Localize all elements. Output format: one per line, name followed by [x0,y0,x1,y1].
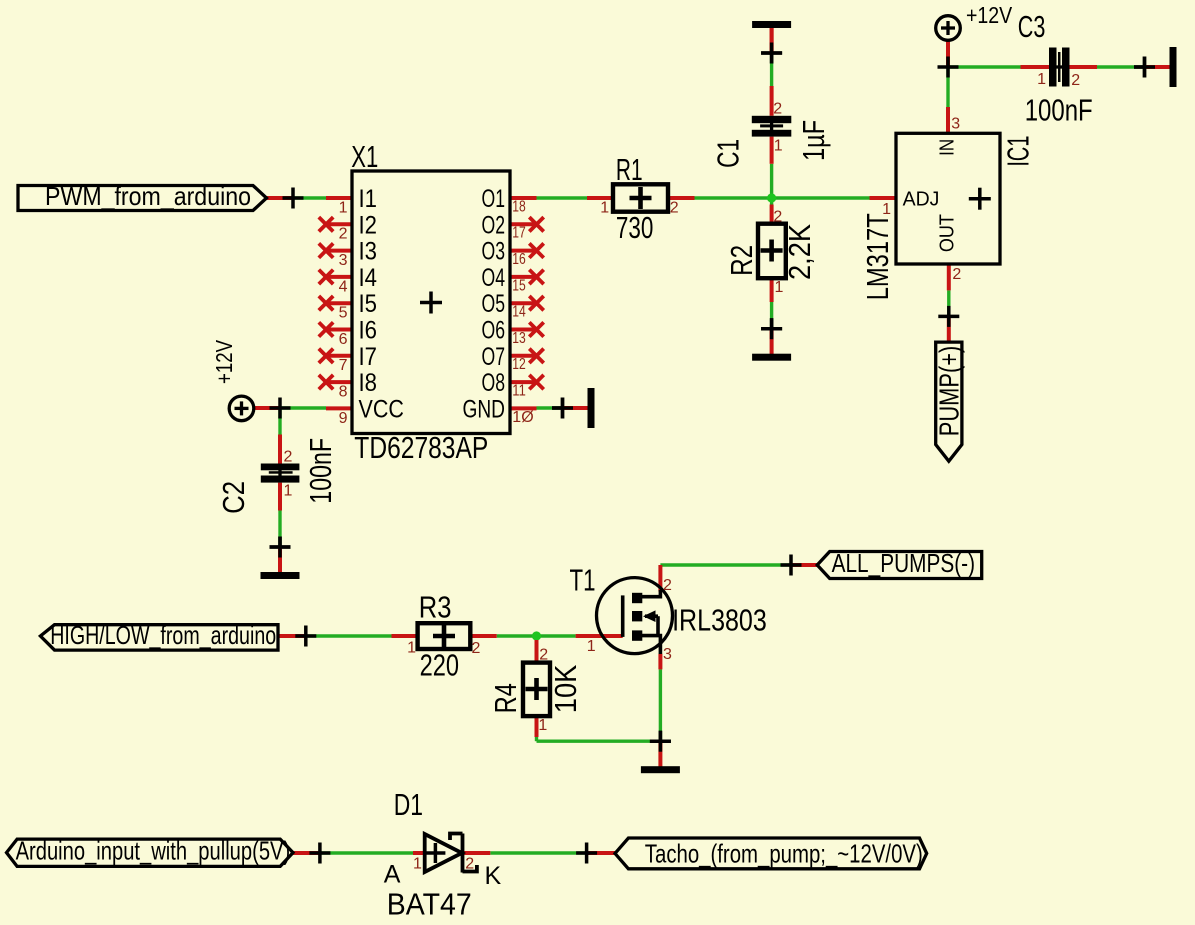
svg-text:I8: I8 [359,369,378,397]
svg-text:1: 1 [774,137,783,154]
svg-text:X1: X1 [351,139,378,174]
svg-text:100nF: 100nF [303,438,338,504]
svg-text:I3: I3 [359,238,378,266]
svg-text:1: 1 [1037,71,1046,88]
svg-text:8: 8 [339,384,348,401]
svg-text:IC1: IC1 [1000,136,1035,167]
svg-text:C2: C2 [216,481,251,514]
svg-text:K: K [485,862,502,890]
svg-text:2: 2 [539,647,548,664]
svg-text:2: 2 [773,101,782,118]
svg-text:+12V: +12V [211,339,237,384]
svg-text:1: 1 [284,483,293,500]
svg-text:I7: I7 [359,343,378,371]
svg-text:LM317T: LM317T [860,213,895,300]
svg-text:+12V: +12V [966,2,1013,28]
svg-text:18: 18 [512,198,526,215]
svg-text:12: 12 [512,356,526,373]
svg-text:BAT47: BAT47 [387,887,472,922]
svg-text:2,2K: 2,2K [782,224,817,280]
svg-text:ALL_PUMPS(-): ALL_PUMPS(-) [832,548,975,578]
svg-text:I5: I5 [359,290,378,318]
svg-text:11: 11 [512,383,526,400]
svg-text:3: 3 [339,252,348,269]
svg-text:13: 13 [512,330,526,347]
svg-text:3: 3 [951,116,960,133]
svg-text:1: 1 [775,279,784,296]
svg-text:4: 4 [339,278,348,295]
svg-text:TD62783AP: TD62783AP [354,430,488,465]
svg-text:IN: IN [937,139,959,156]
svg-text:1: 1 [600,200,609,217]
svg-text:R4: R4 [488,683,523,713]
svg-text:GND: GND [463,395,506,423]
svg-text:14: 14 [512,304,526,321]
svg-text:1: 1 [587,638,596,655]
svg-text:1: 1 [339,199,348,216]
svg-text:2: 2 [339,226,348,243]
svg-text:IRL3803: IRL3803 [672,602,767,637]
svg-text:R2: R2 [724,245,759,276]
svg-text:2: 2 [773,208,782,225]
svg-text:R3: R3 [419,590,452,625]
svg-text:9: 9 [339,410,348,427]
svg-text:O5: O5 [482,290,506,318]
svg-text:10K: 10K [548,664,583,713]
svg-text:HIGH/LOW_from_arduino: HIGH/LOW_from_arduino [50,620,276,650]
svg-text:6: 6 [339,331,348,348]
svg-text:2: 2 [472,640,481,657]
svg-text:O8: O8 [482,369,506,397]
svg-text:15: 15 [512,277,526,294]
svg-text:220: 220 [420,647,459,682]
svg-text:1: 1 [407,640,416,657]
svg-text:7: 7 [339,357,348,374]
svg-text:2: 2 [663,577,672,594]
svg-text:C3: C3 [1018,9,1046,44]
svg-text:C1: C1 [711,139,746,168]
svg-text:16: 16 [512,251,526,268]
svg-text:ADJ: ADJ [903,189,940,211]
svg-text:OUT: OUT [937,214,959,252]
svg-text:2: 2 [670,200,679,217]
svg-text:D1: D1 [394,787,423,822]
svg-text:2: 2 [465,856,474,873]
svg-text:I4: I4 [359,264,378,292]
svg-text:O1: O1 [482,185,506,213]
svg-text:3: 3 [663,646,672,663]
svg-text:Tacho_(from_pump;_~12V/0V): Tacho_(from_pump;_~12V/0V) [645,839,923,869]
svg-text:I1: I1 [359,185,378,213]
svg-text:I6: I6 [359,317,378,345]
svg-text:PUMP(+): PUMP(+) [934,346,965,437]
svg-text:1µF: 1µF [796,120,831,161]
svg-text:1: 1 [413,856,422,873]
svg-text:VCC: VCC [359,395,404,423]
svg-text:17: 17 [512,225,526,242]
svg-text:A: A [384,861,401,889]
svg-text:O4: O4 [482,264,506,292]
svg-text:2: 2 [952,266,961,283]
svg-text:O7: O7 [482,343,506,371]
svg-text:O6: O6 [482,317,506,345]
svg-text:2: 2 [284,449,293,466]
svg-text:100nF: 100nF [1025,92,1093,127]
svg-text:5: 5 [339,305,348,322]
svg-text:I2: I2 [359,211,378,239]
svg-text:Arduino_input_with_pullup(5V): Arduino_input_with_pullup(5V) [16,836,291,866]
svg-text:O2: O2 [482,211,506,239]
svg-text:O3: O3 [482,238,506,266]
svg-text:PWM_from_arduino: PWM_from_arduino [45,181,251,211]
svg-text:R1: R1 [616,152,643,187]
svg-text:1Ø: 1Ø [512,409,533,426]
svg-text:1: 1 [538,717,547,734]
svg-text:2: 2 [1071,72,1080,89]
svg-text:730: 730 [616,210,654,245]
svg-text:T1: T1 [570,563,596,598]
